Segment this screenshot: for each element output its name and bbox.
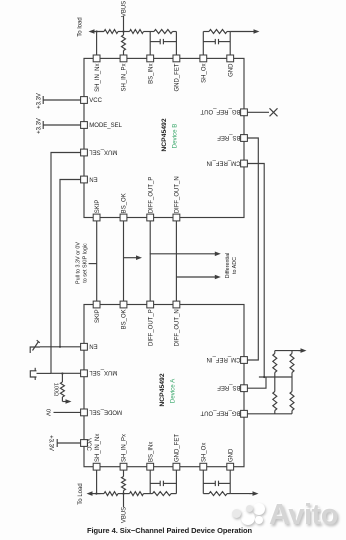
capacitor C1 (snubber 1) [150,41,160,43]
svg-text:Figure 4. Six−Channel Paired D: Figure 4. Six−Channel Paired Device Oper… [87,526,253,535]
pin SKIP (U2 top) [93,301,101,323]
junction MUX_SEL net [61,372,63,374]
pin SH_IN_Nx (U2 bottom) [93,434,101,470]
svg-text:BG_REF_OUT: BG_REF_OUT [200,108,240,114]
pin DIFF_OUT_N (U1 bottom) [173,176,181,221]
wire MUX row to switch [37,372,52,374]
wire mid rail [259,376,292,378]
pin EN (U1 left) [81,175,98,183]
wire ref top rail [275,350,301,352]
svg-text:+3.3V: +3.3V [36,93,42,109]
svg-text:BG_REF_OUT: BG_REF_OUT [200,410,240,416]
resistor R4 (snubber 1) [154,30,173,34]
arrow (BS_OK out) [123,257,137,259]
capacitor C2 (snubber 2) [203,41,215,43]
pin SH_Ox (U2 bottom) [200,443,208,470]
wire snubber3 right [171,493,176,495]
wire snubber3 left leg [149,470,151,494]
wire BS_REF U1 down [247,138,258,360]
junction mid rail [263,376,265,378]
pin CM_REF_IN (U2 right) [206,356,247,364]
pin GND (U2 bottom) [227,448,235,470]
wire snubber2 left leg [202,32,204,56]
resistor R2 (VBUS to SH_IN_Px) [123,32,125,36]
svg-text:BS_INx: BS_INx [148,64,154,84]
svg-text:NCP45492: NCP45492 [161,118,168,151]
capacitor C3 (snubber 3) [150,482,160,484]
wire EN row to switch [40,346,60,348]
pin SH_IN_Px (U2 bottom) [120,434,128,470]
pin BS_INx (U1 top) [147,55,155,84]
pin DIFF_OUT_N (U2 top) [173,301,181,346]
svg-text:VBUS: VBUS [122,507,128,523]
svg-text:Differential: Differential [225,253,231,279]
wire SH_IN_Nx stub [96,32,98,56]
no-connect X (BG_REF_OUT U1) [270,108,278,116]
resistor R11 (bottom rail) [104,492,118,496]
svg-text:SKIP: SKIP [95,200,101,214]
wire snubber2 right leg [229,32,231,56]
resistor R15 (snubber 4) [203,493,209,495]
svg-text:SH_IN_Px: SH_IN_Px [122,64,128,92]
pin DIFF_OUT_P (U1 bottom) [147,177,155,221]
capacitor C4 (snubber 4) [203,482,215,484]
wire rail to snubber 1 [144,31,155,33]
pin DIFF_OUT_P (U2 top) [147,301,155,346]
svg-text:+3.3V: +3.3V [48,435,54,451]
arrow (DIFF_OUT_P to ADC) [150,253,216,255]
wire BS_REF U2 riser [247,377,266,388]
wire snubber3 right leg [175,470,177,494]
svg-text:EN: EN [89,175,97,181]
pin GND_FET (U2 bottom) [173,434,181,470]
junction EN net [59,346,61,348]
pin BG_REF_OUT (U1 right) [200,108,247,116]
pin MUX_SEL (U1 left) [81,148,118,156]
svg-text:MUX_SEL: MUX_SEL [89,369,118,375]
wire CM_REF_IN U1 down [247,164,264,378]
svg-text:DIFF_OUT_P: DIFF_OUT_P [148,309,154,346]
resistor R5 (snubber 2) [203,31,209,33]
svg-text:CM_REF_IN: CM_REF_IN [206,356,240,362]
resistor R3 (top rail) [130,30,144,34]
pin BS_INx (U2 bottom) [147,442,155,470]
resistor R12 (bottom rail) [130,492,144,496]
svg-text:Device B: Device B [171,124,178,149]
svg-text:GND: GND [228,448,234,462]
svg-text:BS_REF: BS_REF [217,134,241,140]
wire snubber4 left leg [202,470,204,494]
arrow (R6 to 0V) [63,401,67,403]
svg-text:GND: GND [228,63,234,77]
wire bottom rail to right arrow [230,493,250,495]
pin SKIP (U1 bottom) [93,200,101,221]
wire BS_OK net (U1 to U2) [123,221,125,302]
svg-text:SH_Ox: SH_Ox [202,64,208,83]
wire SKIP net (U1 to U2) [96,221,98,302]
switch SW1 (EN select) [30,340,40,353]
IC U2 NCP45492 Device A [84,305,244,467]
svg-text:SH_Ox: SH_Ox [202,443,208,462]
resistor R8 (ref divider) [290,351,294,377]
svg-text:0V: 0V [45,409,51,416]
pin MODE_SEL (U2 left) [81,408,122,416]
svg-text:NCP45492: NCP45492 [159,373,166,406]
arrow (DIFF_OUT_N to ADC) [176,276,216,278]
arrow (bottom right, continues) [250,493,254,495]
wire top rail left [97,31,104,33]
svg-text:To load: To load [77,17,83,36]
svg-text:MODE_SEL: MODE_SEL [89,408,122,414]
pin BS_REF (U2 right) [217,384,248,391]
pin VCC (U1 left) [81,97,103,105]
power +3.3V (VCC U1) [36,93,80,109]
pin VCC (U2 left) [81,438,91,451]
arrow (top right, continues) [251,31,255,33]
wire snubber4 right leg [229,470,231,494]
pin BG_REF_OUT (U2 right) [200,410,247,417]
pin CM_REF_IN (U1 right) [206,159,247,167]
svg-text:to ADC: to ADC [232,257,238,274]
junction VBUS node [122,30,124,32]
pin EN (U2 left) [81,343,98,350]
pin SH_Ox (U1 top) [200,55,208,83]
power +3.3V (VCC U2) [48,435,81,451]
svg-text:to set SKIP logic: to set SKIP logic [82,243,88,283]
svg-text:CM_REF_IN: CM_REF_IN [206,159,240,165]
to-load arrow (top left) [94,31,104,33]
wire rail R1-R2 [118,31,130,33]
svg-text:MUX_SEL: MUX_SEL [89,148,118,154]
to-load arrow (bottom left) [92,493,101,495]
wire VBUS drop [123,16,125,32]
wire snubber1 top right [173,31,177,33]
pin BS_OK (U1 bottom) [120,193,128,221]
svg-text:Device A: Device A [170,378,177,403]
wire snubber1 right leg [175,32,177,56]
watermark Avito text [269,503,338,527]
svg-text:BS_REF: BS_REF [217,384,241,390]
wire SKIP pull stub [89,263,97,265]
switch SW2 (MUX_SEL select) [30,368,36,380]
svg-text:DIFF_OUT_N: DIFF_OUT_N [175,309,181,346]
resistor R14 (snubber 3) [153,492,172,496]
pin BS_OK (U2 top) [120,301,128,329]
svg-text:DIFF_OUT_P: DIFF_OUT_P [148,177,154,214]
wire bottom rail R11-R12 [118,493,130,495]
resistor R10 (ref divider) [290,377,294,414]
arrow (ref rail supply) [299,350,302,352]
resistor R6 100ohm (MUX_SEL pulldown) [60,374,64,402]
wire SH_IN_Nx stub (bottom) [96,470,98,494]
power +3.3V (MODE_SEL U1) [36,118,80,134]
svg-text:EN: EN [89,343,97,349]
wire snubber1 left leg [149,32,151,56]
pin MODE_SEL (U1 left) [81,122,123,130]
svg-text:VBUS: VBUS [122,1,128,17]
pin GND (U1 top) [227,55,235,77]
wire bottom rail to snubber 3 [144,493,153,495]
resistor R1 (top rail) [104,30,118,34]
svg-text:+3.3V: +3.3V [36,118,42,134]
wire VBUS drop (bottom) [123,494,125,507]
wire DIFF_OUT_N net (U1 to U2) [175,221,177,302]
IC U1 NCP45492 Device B [84,58,244,217]
pin SH_IN_Nx (U1 top) [93,55,101,92]
watermark Avito logo circles [241,511,255,525]
svg-text:BS_INx: BS_INx [148,442,154,462]
wire MODE_SEL U2 to 0V [54,411,81,413]
svg-text:BS_OK: BS_OK [122,309,128,329]
junction SH_IN_Nx / bottom rail [95,493,97,495]
svg-text:SH_IN_Nx: SH_IN_Nx [95,64,101,92]
junction SH_IN_Nx / rail [96,30,98,32]
resistor R9 (ref divider) [273,377,277,414]
svg-text:To Load: To Load [78,483,84,504]
resistor R13 (SH_IN_Px to VBUS) [123,470,125,477]
pin BS_REF (U1 right) [217,134,248,142]
resistor R7 (ref divider) [273,351,277,377]
svg-text:VCC: VCC [85,438,91,451]
wire BG_REF_OUT U2 rail [247,413,292,415]
svg-text:DIFF_OUT_N: DIFF_OUT_N [175,176,181,213]
wire EN net (U1 to U2) [60,180,81,347]
junction VBUS node (bottom) [122,493,124,495]
wire bottom rail left [96,493,104,495]
svg-text:MODE_SEL: MODE_SEL [89,123,122,129]
svg-text:SKIP: SKIP [95,309,101,323]
svg-text:SH_IN_Px: SH_IN_Px [122,434,128,462]
pin MUX_SEL (U2 left) [81,369,118,376]
svg-text:SH_IN_Nx: SH_IN_Nx [95,434,101,462]
svg-text:Pull to 3.3V or 0V: Pull to 3.3V or 0V [75,242,81,284]
svg-text:GND_FET: GND_FET [175,63,181,91]
svg-text:BS_OK: BS_OK [122,193,128,213]
svg-text:VCC: VCC [89,98,102,104]
svg-text:100Ω: 100Ω [53,383,59,397]
wire BG_REF_OUT U1 to no-connect [247,111,269,113]
pin SH_IN_Px (U1 top) [120,55,128,92]
svg-text:GND_FET: GND_FET [175,434,181,462]
wire MUX_SEL net (U1 to U2) [51,153,81,374]
wire DIFF_OUT_P net (U1 to U2) [149,221,151,302]
wire rail to right arrow [230,31,250,33]
pin GND_FET (U1 top) [173,55,181,92]
